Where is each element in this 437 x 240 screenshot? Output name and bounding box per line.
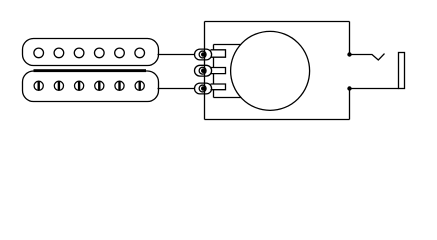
pole screw 1 (34, 81, 43, 90)
pot lug 1 eyelet (195, 49, 212, 60)
pole screw 3 (75, 81, 84, 90)
solder joint node on lug 3 (201, 86, 206, 91)
wire: circuit loop left edge (through lug eyelets) (204, 22, 206, 120)
output jack J1 (399, 53, 405, 89)
solder joint node on lug 2 (201, 68, 206, 73)
pole piece 5 (slug) (115, 48, 125, 58)
wire: circuit loop bottom edge (205, 119, 350, 121)
pole piece 3 (slug) (74, 48, 84, 58)
pot lug 2 tab (211, 68, 226, 74)
wire: screw coil lead to pot lug 3 (158, 88, 196, 90)
node: junction dot at switch input (347, 52, 351, 56)
pot R1 lug plate top edge (214, 44, 241, 46)
pot lug 1 tab (211, 50, 226, 57)
node: junction dot at jack feed (347, 86, 351, 90)
solder joint node on lug 1 (201, 52, 206, 57)
pole piece 6 (slug) (135, 48, 145, 58)
pot lug 3 tab (211, 84, 226, 90)
potentiometer R1 body (231, 31, 310, 110)
pole screw 4 (95, 81, 104, 90)
wire: right edge upper segment to switch node (349, 22, 351, 55)
pot lug 3 eyelet (195, 83, 212, 94)
pole piece 4 (slug) (95, 48, 105, 58)
humbucker pickup PU1 : slug coil (top bobbin) (23, 39, 159, 66)
humbucker pickup PU1 : screw coil (bottom bobbin) (23, 71, 159, 102)
wire: circuit loop top edge (205, 21, 350, 23)
wire: right edge lower segment from output node (349, 89, 351, 120)
pot R1 lug plate bottom edge (214, 97, 242, 99)
pole screw 2 (54, 81, 63, 90)
pole piece 2 (slug) (54, 48, 64, 58)
pole screw 6 (135, 81, 144, 90)
pot lug 2 eyelet (195, 65, 212, 76)
pickup baseplate bar (thick divider) (34, 69, 147, 72)
wire: output node to jack J1 (350, 88, 399, 90)
pole screw 5 (115, 81, 124, 90)
pole piece 1 (slug) (34, 48, 44, 58)
pot R1 lug plate left spine (213, 45, 215, 98)
switch S1 (open contact) (350, 54, 385, 60)
wire: slug coil hot lead to pot lug 1 (158, 54, 196, 56)
